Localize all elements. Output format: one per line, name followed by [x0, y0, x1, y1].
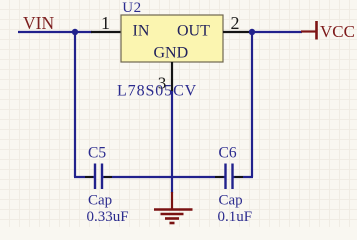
wire to VCC: [252, 31, 302, 33]
svg-text:OUT: OUT: [177, 23, 210, 40]
svg-text:C5: C5: [88, 144, 106, 161]
svg-text:VIN: VIN: [23, 13, 54, 33]
capacitor C6 plates: [226, 164, 233, 190]
svg-text:2: 2: [231, 13, 240, 33]
junction at VCC node: [249, 29, 255, 35]
pin 3 of U2 (GND pin): [171, 62, 173, 92]
pin 2 of U2: [223, 31, 252, 33]
wire bottom horizontal (C5 net): [74, 176, 94, 178]
wire GND vertical: [171, 91, 173, 193]
capacitor C5 pin stubs: [85, 176, 112, 178]
svg-text:Cap: Cap: [219, 193, 243, 209]
junction at VIN node: [72, 29, 78, 35]
power port VCC bar: [301, 21, 317, 40]
svg-text:3: 3: [158, 74, 167, 93]
svg-text:Cap: Cap: [88, 193, 112, 209]
wire between C5 and C6: [103, 176, 225, 178]
regulator U2 body: [121, 15, 223, 62]
capacitor C6 pin stubs: [215, 176, 243, 178]
svg-text:U2: U2: [122, 0, 141, 16]
wire VIN horizontal: [18, 31, 92, 33]
pin 1 of U2: [91, 31, 121, 33]
capacitor C5 plates: [95, 164, 102, 190]
svg-text:IN: IN: [133, 23, 150, 40]
wire left vertical to C5: [74, 32, 76, 177]
svg-text:GND: GND: [154, 45, 189, 62]
svg-text:0.33uF: 0.33uF: [87, 209, 129, 225]
wire right vertical to C6: [251, 32, 253, 177]
svg-text:VCC: VCC: [320, 22, 355, 41]
svg-text:0.1uF: 0.1uF: [218, 209, 253, 225]
svg-text:C6: C6: [219, 144, 237, 161]
ground symbol: [154, 192, 193, 223]
svg-text:1: 1: [101, 13, 110, 33]
wire C6 to right corner: [234, 176, 254, 178]
